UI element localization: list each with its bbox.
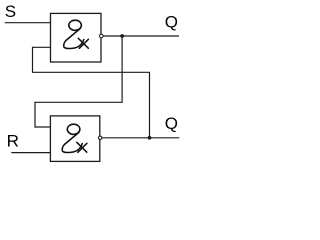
wire R input (11, 152, 50, 154)
svg-text:S: S (5, 2, 16, 21)
nand-gate U2 box (50, 116, 99, 161)
wire S input (5, 22, 51, 24)
pin circle U1 output (100, 34, 104, 38)
svg-text:Q: Q (165, 114, 178, 133)
node junction on Q wire (120, 34, 124, 38)
node junction on lower Q wire (148, 136, 152, 140)
nand-gate U2 ampersand symbol (62, 124, 87, 152)
wire feedback from lower Q up (33, 47, 150, 138)
svg-text:Q: Q (165, 12, 178, 31)
nand-gate U1 box (51, 13, 102, 62)
wire U1 output to Q (104, 35, 180, 37)
svg-text:R: R (7, 131, 19, 150)
wire U2 output to Q (102, 137, 179, 139)
wire feedback from Q down (35, 36, 122, 127)
pin circle U2 output (99, 136, 102, 139)
nand-gate U1 ampersand symbol (64, 20, 89, 48)
